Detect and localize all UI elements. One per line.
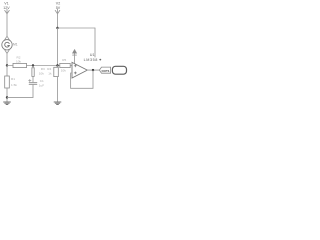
resistor R5 bbox=[60, 58, 70, 72]
wire V2 down to junction bbox=[57, 14, 59, 28]
svg-text:OUT1: OUT1 bbox=[102, 69, 110, 73]
resistor R3 bbox=[32, 67, 45, 77]
resistor R1 bbox=[5, 76, 18, 88]
wire node A down to R1 bbox=[6, 66, 8, 77]
wire bottom: C1 bottom to ground junction bbox=[7, 96, 33, 98]
svg-text:10k: 10k bbox=[39, 72, 44, 76]
node V2 bbox=[55, 2, 61, 14]
resistor R4 bbox=[47, 67, 58, 77]
junction V2 rail bbox=[56, 27, 58, 29]
wire R1 to ground junction bbox=[6, 88, 8, 102]
wire node C down bbox=[57, 66, 59, 68]
svg-text:C1: C1 bbox=[40, 79, 44, 83]
svg-text:M1: M1 bbox=[13, 42, 18, 46]
wire V2 rail to the right bbox=[58, 27, 96, 29]
junction bottom left bbox=[6, 96, 8, 98]
svg-text:1uF: 1uF bbox=[39, 84, 44, 88]
svg-text:5V: 5V bbox=[56, 6, 61, 10]
connector pill bbox=[112, 66, 126, 74]
feedback wire output to inverting input bbox=[71, 70, 93, 88]
ground left bbox=[4, 102, 11, 105]
wire microphone down to node A bbox=[6, 53, 8, 65]
svg-text:LM358: LM358 bbox=[84, 58, 98, 62]
wire op-amp output bbox=[87, 69, 99, 71]
node A junction bbox=[6, 64, 8, 66]
junction node C bbox=[56, 64, 58, 66]
wire V2 down to main wire bbox=[57, 28, 59, 66]
svg-text:U1: U1 bbox=[90, 53, 95, 57]
resistor R2 bbox=[13, 55, 27, 67]
node B junction bbox=[32, 64, 34, 66]
main horizontal wire node A to op-amp bbox=[7, 65, 72, 67]
ground middle bbox=[54, 102, 61, 105]
node V1 bbox=[3, 2, 10, 14]
microphone M1 bbox=[2, 36, 18, 53]
svg-text:R4: R4 bbox=[47, 67, 51, 71]
svg-text:1k: 1k bbox=[48, 72, 52, 76]
output tag OUT1 bbox=[99, 67, 110, 73]
op-amp supply arrow bbox=[72, 49, 76, 63]
wire R3 to C1 bbox=[32, 77, 34, 82]
wire V2 rail down to op-amp supply pin bbox=[94, 28, 96, 57]
capacitor C1 bbox=[29, 79, 45, 88]
wire V1 to microphone bbox=[6, 14, 8, 36]
svg-text:1.5k: 1.5k bbox=[11, 83, 17, 87]
wire node B down bbox=[32, 66, 34, 68]
svg-text:R5: R5 bbox=[62, 58, 66, 62]
wire C1 bottom down bbox=[32, 84, 34, 97]
op-amp U1 bbox=[72, 53, 101, 78]
wire R4 to ground bbox=[57, 77, 59, 102]
junction output bbox=[92, 69, 94, 71]
svg-text:R1: R1 bbox=[11, 77, 15, 81]
svg-text:R3: R3 bbox=[41, 67, 45, 71]
svg-text:10k: 10k bbox=[16, 59, 21, 63]
svg-text:10k: 10k bbox=[61, 69, 66, 73]
